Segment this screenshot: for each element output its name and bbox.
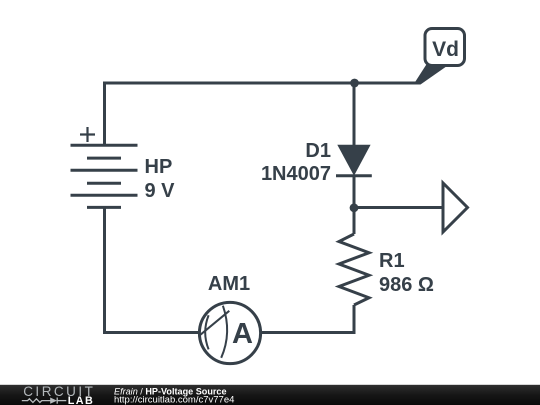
svg-text:Vd: Vd — [432, 38, 459, 61]
svg-text:9 V: 9 V — [145, 180, 176, 202]
footer black bar — [0, 385, 540, 405]
junction dot at diode cathode / output node — [350, 203, 359, 212]
wire: top horizontal from battery to Vd flag — [105, 82, 420, 85]
svg-text:HP: HP — [145, 156, 173, 178]
wire: bottom rail from battery corner to ammeter left terminal — [103, 331, 200, 334]
output terminal triangle — [443, 183, 468, 232]
svg-text:D1: D1 — [305, 140, 331, 162]
battery HP 9V — [71, 127, 138, 207]
diode D1 cathode bar — [336, 174, 372, 177]
footer logo resistor-diode glyph — [22, 398, 67, 404]
svg-text:R1: R1 — [379, 250, 405, 272]
wire: battery top lead vertical — [103, 82, 106, 146]
resistor R1 zigzag — [339, 234, 369, 305]
wire: diode branch vertical (top rail to diode anode) — [353, 83, 356, 145]
ammeter AM1 circle — [199, 302, 260, 363]
wire: bottom rail from ammeter right terminal to resistor bottom corner — [261, 331, 356, 334]
node flag Vd tail — [414, 64, 448, 85]
junction dot at top rail / diode branch — [350, 79, 359, 88]
ammeter needle — [200, 311, 229, 335]
svg-text:1N4007: 1N4007 — [261, 163, 331, 185]
wire: diode cathode down to junction and resistor top leg — [353, 176, 356, 235]
node flag Vd box — [425, 29, 465, 66]
wire: battery bottom lead down to bottom rail — [103, 208, 106, 335]
ammeter scale arc right — [221, 306, 227, 358]
ammeter scale arc left — [205, 315, 208, 349]
svg-text:LAB: LAB — [68, 395, 94, 405]
diode D1 triangle (anode) — [337, 145, 370, 176]
svg-text:986 Ω: 986 Ω — [379, 274, 434, 296]
svg-text:A: A — [232, 318, 253, 350]
wire: output stub to terminal triangle — [354, 206, 443, 209]
wire: resistor bottom leg vertical — [353, 305, 356, 334]
svg-text:http://circuitlab.com/c7v77e4: http://circuitlab.com/c7v77e4 — [114, 395, 234, 405]
svg-text:AM1: AM1 — [208, 273, 250, 295]
